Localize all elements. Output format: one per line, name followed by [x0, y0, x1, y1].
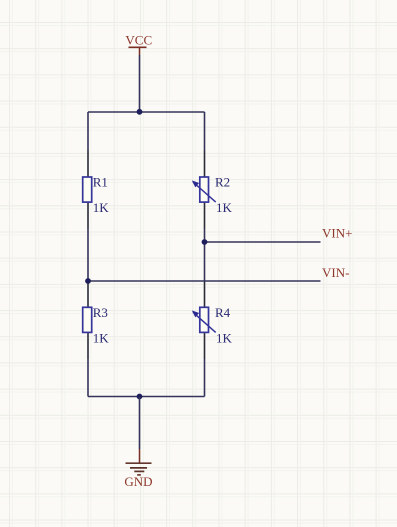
ground bar 4 [137, 474, 141, 476]
resistor R3 body [83, 307, 92, 332]
pin R1 top [87, 151, 89, 178]
wire left branch middle [87, 229, 89, 281]
power port GND [124, 449, 152, 489]
wire left branch lower [87, 359, 89, 397]
pin R1 bottom [87, 202, 89, 229]
resistor R4 (variable) [192, 305, 233, 346]
R4 wiper arrowhead [192, 310, 199, 317]
VCC power bar [129, 46, 147, 48]
svg-text:R2: R2 [215, 175, 230, 190]
wire bottom rail [88, 396, 205, 398]
resistor R1 body [83, 177, 92, 202]
svg-text:1K: 1K [93, 330, 110, 345]
R2 wiper arrow shaft [193, 182, 216, 202]
svg-text:VIN-: VIN- [322, 265, 349, 280]
resistor R2 body [200, 177, 209, 202]
wire left branch upper [87, 112, 89, 151]
pin R3 top [87, 281, 89, 308]
ground bar 1 [126, 462, 152, 464]
VCC port stub [139, 47, 141, 55]
resistor R4 body [200, 307, 209, 332]
pin R2 top [204, 151, 206, 178]
resistor R3 [83, 305, 110, 346]
wire VIN- [88, 280, 321, 282]
pin R3 bottom [87, 332, 89, 359]
pin R2 bottom [204, 202, 206, 229]
svg-text:R4: R4 [215, 305, 231, 320]
node junction at GND/bottom rail [137, 394, 143, 400]
R2 wiper arrowhead [192, 180, 199, 187]
resistor R1 [83, 175, 110, 216]
power port VCC [125, 32, 152, 55]
wire right branch upper [204, 112, 206, 151]
node junction VIN+ [202, 239, 208, 245]
wire right branch middle [204, 229, 206, 281]
svg-text:R1: R1 [93, 175, 108, 190]
R4 wiper arrow shaft [193, 312, 216, 332]
svg-text:VIN+: VIN+ [322, 226, 352, 241]
wire right branch lower [204, 359, 206, 397]
node junction at VCC/top rail [137, 109, 143, 115]
svg-text:R3: R3 [93, 305, 108, 320]
svg-text:1K: 1K [216, 200, 233, 215]
node junction VIN- [85, 278, 91, 284]
wire bottom rail to GND [139, 397, 141, 450]
wire VIN+ [205, 241, 321, 243]
resistor R2 (variable) [192, 175, 233, 216]
svg-text:GND: GND [124, 474, 152, 489]
ground bar 3 [134, 470, 144, 472]
svg-text:VCC: VCC [125, 32, 152, 47]
pin R4 top [204, 281, 206, 308]
GND port stub [139, 449, 141, 463]
svg-text:1K: 1K [93, 200, 110, 215]
wire VCC to top rail [139, 55, 141, 112]
wire top rail [88, 111, 205, 113]
ground bar 2 [130, 467, 147, 469]
svg-text:1K: 1K [216, 330, 233, 345]
pin R4 bottom [204, 332, 206, 359]
